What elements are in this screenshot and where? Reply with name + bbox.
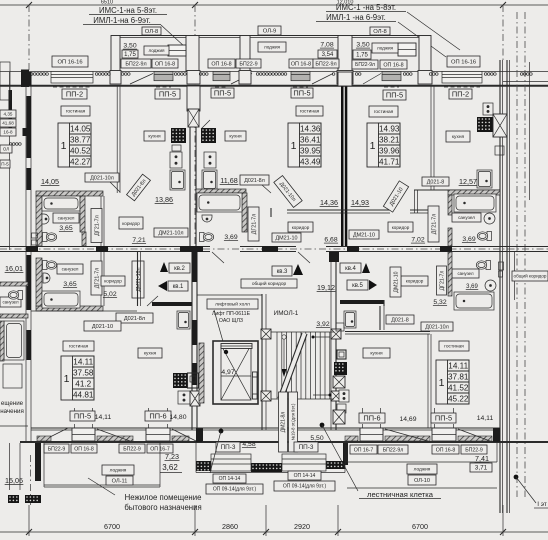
window label OP14-14 [213,474,246,483]
svg-text:коридор: коридор [406,279,424,284]
lobby divider [197,294,262,296]
svg-text:ПП-2: ПП-2 [66,90,83,99]
svg-text:лестничная клетка: лестничная клетка [367,490,434,499]
sink F top [177,311,190,329]
bathtub lower-left [42,291,80,308]
room label kitchen lower-right [363,348,390,358]
svg-text:бытового назначения: бытового назначения [124,503,201,512]
panel label PP-5 bottom [70,411,95,421]
svg-text:14,11: 14,11 [477,415,494,422]
door label D021-8l [116,313,153,323]
svg-text:кухня: кухня [144,352,157,357]
svg-text:3,92: 3,92 [316,321,329,328]
stair wall hatched strip [199,343,204,403]
bath left wall hatched [36,258,42,306]
round sink D [484,213,495,224]
shaded window unit [213,72,230,88]
svg-text:ОЛ-8: ОЛ-8 [145,29,158,35]
svg-text:ПП-3: ПП-3 [299,444,314,451]
svg-text:ОЛ-8: ОЛ-8 [373,29,386,35]
entry steps right [282,454,326,471]
door label DM21-10 [349,230,379,239]
pier base block in band [337,71,353,85]
counter marks [172,145,181,151]
svg-text:Лифт ПП-0611Е: Лифт ПП-0611Е [212,311,251,317]
svg-text:ИМС-1 -на 5-8эт.: ИМС-1 -на 5-8эт. [336,3,396,12]
panel label PP-5 [383,90,406,100]
svg-text:I эт: I эт [537,501,547,508]
svg-text:4,58: 4,58 [242,441,255,448]
door label DG21-7l rotated lower [91,261,102,295]
room label lodge B [258,42,286,52]
svg-text:6510: 6510 [101,0,113,6]
bathtub apt B [197,193,242,212]
svg-text:14.11: 14.11 [448,362,468,371]
svg-text:лоджия: лоджия [414,468,431,473]
vent dots [256,73,287,76]
label OL-10 [408,475,436,485]
window label BP22-9l [121,59,151,68]
label N19-8 rotated [289,392,298,452]
door label DG21-7l rotated [428,206,439,242]
window unit in top wall [51,72,93,88]
svg-text:ОП 16-8: ОП 16-8 [383,62,403,68]
wall top of apt E [345,331,430,333]
vent block neighbour lodge 2 [25,495,41,503]
svg-text:кухня: кухня [370,352,383,357]
wall hatch [448,228,452,246]
svg-text:ОЛ: ОЛ [3,146,9,151]
svg-text:ОП 16-8: ОП 16-8 [211,61,231,67]
svg-text:40.52: 40.52 [70,147,91,156]
window label OP16-16 left [52,56,88,67]
axis line center-left [194,5,196,248]
svg-text:42.27: 42.27 [70,158,91,167]
wall between apt C and D [430,86,432,190]
svg-text:3,50: 3,50 [356,42,369,49]
counterweight [253,372,258,399]
stove A [170,152,182,168]
svg-text:ОП 14-14: ОП 14-14 [294,473,316,479]
axis line right [502,5,504,62]
area table apt A [58,123,91,167]
svg-text:кв.1: кв.1 [173,284,184,290]
vent dots [403,73,412,76]
wall living C / corridor [340,209,390,211]
washing machine [32,233,38,238]
svg-text:ДГ21-7л: ДГ21-7л [94,268,100,289]
X block [333,410,345,424]
svg-text:общий коридор: общий коридор [252,280,287,287]
column block [261,391,271,401]
toilet apt A [43,233,57,242]
svg-text:ПП-5: ПП-5 [293,89,310,98]
svg-text:19,12: 19,12 [317,283,335,292]
svg-text:ОП 16-8: ОП 16-8 [74,446,94,452]
window label OP14-14 [288,471,321,480]
svg-text:кв.5: кв.5 [352,283,363,289]
svg-text:41.52: 41.52 [448,384,469,393]
svg-text:13,86: 13,86 [155,195,173,204]
flat number kv.2 [160,262,168,272]
label OL-9 lodge B [258,26,281,35]
balcony door diagonal [312,74,333,85]
window label OP16-8 [208,59,235,68]
door label DM21-10 [272,233,301,242]
svg-text:3,71: 3,71 [475,465,488,472]
central pier wall down [187,86,200,111]
svg-text:5,50: 5,50 [310,435,323,442]
svg-text:ПП-6: ПП-6 [363,414,380,423]
axis line left [28,5,30,75]
room label bathroom D [452,213,481,222]
svg-text:ПП-5: ПП-5 [159,90,176,99]
svg-text:6700: 6700 [412,522,428,531]
door label DG21-7l rotated [91,209,102,243]
svg-text:коридор: коридор [104,279,122,284]
svg-text:коридор: коридор [122,221,140,226]
stair arrows [282,335,286,339]
hatch block kitchen F [190,391,200,406]
right dot leader [514,475,519,480]
svg-text:16-8: 16-8 [3,130,13,135]
svg-text:14,36: 14,36 [320,198,338,207]
window label OP16-8 [289,59,313,68]
stair risers [277,332,330,399]
svg-text:14,69: 14,69 [399,416,416,423]
svg-text:№19-8 эт.(для 9эт.): №19-8 эт.(для 9эт.) [290,403,295,440]
svg-text:3,50: 3,50 [123,43,136,50]
label OL-8 lodge C [370,27,390,35]
svg-text:2920: 2920 [294,522,310,531]
column block [331,391,341,401]
svg-text:ПП-5: ПП-5 [435,414,452,423]
bath wall segment [80,196,85,232]
top exterior wall band [0,71,548,73]
svg-text:16,01: 16,01 [5,264,23,273]
junction dot left [219,429,224,434]
svg-text:БП22-9: БП22-9 [48,446,66,452]
neighbour lodge cut [9,443,11,490]
vent dots [484,73,496,76]
panel label PP-2 right [449,89,472,99]
room label lodge C [372,43,398,53]
svg-text:ОП 16-16: ОП 16-16 [451,59,476,65]
lodge pier wall [419,36,431,72]
vent dots [332,73,335,76]
door label D021-8l [240,175,269,185]
stair break line [278,333,307,399]
room label lodge A [144,46,169,55]
entry pit outline [196,472,345,474]
svg-text:39.95: 39.95 [300,147,321,156]
neighbour wall hatch 2 [0,314,28,318]
column block [331,329,341,339]
svg-text:ОП 16-7: ОП 16-7 [354,447,374,453]
svg-text:11,68: 11,68 [220,176,237,185]
svg-text:Нежилое помещение: Нежилое помещение [125,493,202,502]
room label lodge bottom-left [102,465,134,475]
window in bottom wall [146,428,170,441]
black chunk stair right wall top [329,252,339,262]
door label D021-10 rotated [383,181,408,212]
svg-text:ОЛ-10: ОЛ-10 [414,478,430,484]
neighbour bathroom cut left [0,297,21,307]
svg-text:кухня: кухня [452,135,465,140]
svg-text:гостиная: гостиная [300,110,320,115]
svg-text:ОП 14-14: ОП 14-14 [219,476,241,482]
bathtub apt D [454,194,496,212]
right neighbour walls [516,12,518,497]
lobby left wall [191,252,193,430]
stair shaft walls [261,294,263,430]
toilet lower-left [43,261,57,270]
door label DM21-10l [154,228,188,237]
room label bathroom lower-left [57,264,83,274]
balcony door swing kitchen B [201,120,210,129]
svg-text:ДМ21-8л: ДМ21-8л [281,412,287,433]
corridor lower wall right [340,300,384,304]
lodge pier wall [186,36,199,72]
door label DM21-8l rotated [279,392,288,452]
entrance walls [197,427,262,429]
room label lodge bottom-right [407,464,437,474]
svg-text:лифтовый холл: лифтовый холл [215,301,250,308]
obshiy koridor labels [241,279,297,288]
window label OP16-7 [350,445,377,454]
leaders right [398,22,446,57]
svg-text:41.71: 41.71 [379,158,400,167]
svg-text:41,68: 41,68 [2,121,14,126]
window unit in top wall [442,72,482,88]
svg-text:БП22-9л: БП22-9л [125,61,146,67]
balcony door diagonal [363,74,381,85]
vent dots [30,73,48,76]
pier base block in band [239,71,251,85]
svg-text:санузел: санузел [58,216,75,221]
wall stub left of bath D [414,190,416,213]
svg-text:кухня: кухня [229,135,242,140]
svg-text:ПП-3: ПП-3 [221,444,236,451]
svg-text:3,69: 3,69 [224,234,237,241]
window label BP22-9 [44,444,69,453]
hatched sill [172,436,189,441]
neighbour labels top-left [0,110,16,118]
svg-text:общий коридор: общий коридор [514,273,547,279]
panel label PP-6 bottom [145,411,171,421]
vent block D [477,117,493,132]
svg-text:ОАО ЩЛЗ: ОАО ЩЛЗ [219,318,243,324]
svg-text:Д021-8л: Д021-8л [124,316,145,322]
svg-text:1,75: 1,75 [356,53,368,59]
svg-text:1: 1 [370,140,376,152]
area table apt B [288,123,321,167]
balcony door diagonal [231,74,252,85]
svg-text:коридор: коридор [392,225,410,230]
svg-text:кв.3: кв.3 [277,269,288,275]
hatched sill [385,436,430,441]
electrical boxes right of stair [336,323,344,331]
svg-text:ОЛ-9: ОЛ-9 [263,28,276,34]
bath/kitchen wall [100,196,102,250]
neighbour wall hatch [0,282,28,286]
wall hatch right [448,252,452,296]
toilet neighbour [8,291,22,300]
window in bottom wall [360,428,383,441]
svg-text:14.11: 14.11 [73,358,93,367]
room label kitchen A [144,131,165,141]
svg-text:Д021-8: Д021-8 [427,179,444,185]
svg-text:ДМ21-10л: ДМ21-10л [136,267,142,291]
stove B [204,152,216,168]
pier right lodge [343,443,348,465]
lodge pier wall [111,36,120,72]
door label D021-8 [386,315,414,324]
svg-text:37.58: 37.58 [73,369,94,378]
door label D021-10l rotated diamond [274,176,302,208]
lodge bottom-right [347,461,497,463]
svg-text:3,62: 3,62 [162,463,178,472]
svg-text:гостиная: гостиная [374,110,394,115]
panel label PP-5 [211,88,234,98]
svg-text:БП22-9л: БП22-9л [355,62,375,68]
svg-text:ОП 16-8: ОП 16-8 [436,447,456,453]
room label corridor C [388,222,413,232]
svg-text:Д021-10: Д021-10 [92,324,113,330]
vent dots [121,73,130,76]
kitchen sink B [202,170,217,190]
door label DM21-10 rotated [390,267,401,297]
pier below lodge C [338,72,352,86]
svg-text:ДГ21-7л: ДГ21-7л [94,215,100,236]
svg-text:38.77: 38.77 [70,136,91,145]
lodge pier wall [240,36,250,72]
svg-text:41.2: 41.2 [75,380,91,389]
left section wall [25,72,27,443]
door swings corridor [212,252,224,263]
svg-text:4,35: 4,35 [4,112,13,117]
svg-text:гостиная: гостиная [69,345,89,350]
window label OP09-14 [206,484,263,494]
room label living lower-right [439,341,469,351]
corridor label right [401,276,428,286]
svg-text:6,68: 6,68 [324,237,337,244]
lift door sill top [221,344,252,349]
vent block kitchen F [173,373,187,388]
room label kitchen B [225,131,246,141]
window label OP09-14 [274,481,335,491]
svg-text:36.41: 36.41 [300,136,321,145]
pier base block in band [418,71,432,85]
svg-text:Д021-8: Д021-8 [391,317,408,323]
sink B [202,215,212,222]
bottom dimension line [0,531,548,533]
room label bathroom A [53,213,79,223]
svg-text:43.49: 43.49 [300,158,321,167]
bath B top wall hatched [196,189,246,193]
pier base block in band [110,71,121,85]
room label corridor B [288,222,313,232]
svg-text:7,21: 7,21 [132,237,145,244]
svg-text:БП22-9: БП22-9 [465,447,483,453]
bath top wall hatched [36,191,103,196]
svg-text:44.81: 44.81 [73,391,94,400]
bath B right wall hatched [242,193,247,232]
toilet B [200,233,214,242]
svg-text:4,97: 4,97 [221,369,234,376]
svg-text:санузел: санузел [62,267,79,272]
entry steps left [211,454,251,471]
svg-text:лоджия: лоджия [149,48,166,53]
window label BP22-9l [313,59,339,68]
room label kitchen D [446,131,470,142]
panel label PP-3 [216,442,240,452]
svg-text:БП22-9: БП22-9 [123,446,141,452]
svg-text:ДГ21-7л: ДГ21-7л [431,214,437,235]
room label living B [296,106,323,116]
stove E [339,390,349,402]
junction dot with leader [320,423,325,428]
shaft X block D [493,114,507,137]
svg-text:ПП-5: ПП-5 [386,91,403,100]
svg-text:2860: 2860 [222,522,238,531]
svg-text:3,65: 3,65 [59,225,72,232]
black pier left of entrance [196,428,203,442]
svg-text:санузел: санузел [2,299,19,304]
black pier in band [21,70,29,88]
vent block left of pier [171,128,186,143]
svg-text:14.05: 14.05 [70,125,91,134]
svg-text:Д021-10л: Д021-10л [425,324,449,330]
neighbour wall hatch vertical [0,321,4,361]
pier right end [493,428,500,442]
toilet D [477,232,491,241]
label OL-8 lodge A [142,27,161,35]
svg-text:3,54: 3,54 [322,52,334,58]
svg-text:ИМЛ-1 -на 6-9эт.: ИМЛ-1 -на 6-9эт. [326,13,386,22]
panel label PP-6 bottom right [359,413,385,423]
svg-text:кв.2: кв.2 [174,266,185,272]
bath bottom wall hatched [36,306,103,311]
panel label PP-5 bottom right [431,413,456,423]
svg-text:ДМ21-10: ДМ21-10 [353,232,375,238]
room label kitchen lower-left [138,348,162,358]
column block [261,329,271,339]
window label BP22-9l [352,60,378,69]
svg-text:кв.4: кв.4 [345,266,356,272]
svg-text:лоджия: лоджия [377,46,394,51]
diagonals bottom band [97,429,130,441]
svg-text:1,75: 1,75 [124,52,136,58]
area table apt C [367,123,400,167]
lift cab [221,345,251,400]
door label D021-8 [422,177,449,186]
svg-text:лоджия: лоджия [110,469,127,474]
kitchen sink D [477,170,492,188]
svg-text:14,05: 14,05 [41,177,59,186]
label OL-11 [106,476,133,485]
svg-text:санузел: санузел [458,215,475,220]
svg-text:ОЛ-11: ОЛ-11 [112,478,128,484]
svg-text:ОП 09-14(для 9эт.): ОП 09-14(для 9эт.) [213,487,257,493]
vent dots [520,73,532,76]
svg-text:12,57: 12,57 [459,177,477,186]
entry pier left [196,461,211,471]
room label living A [61,106,90,116]
panel label PP-2 left [62,89,87,99]
flat number kv.4 [340,263,361,273]
door label D021-10 [84,321,121,331]
